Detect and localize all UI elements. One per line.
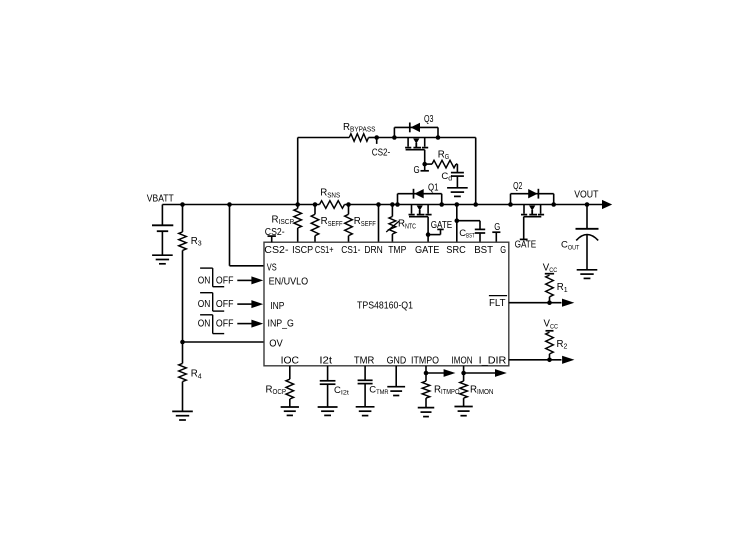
ground CI2t bbox=[318, 407, 338, 415]
wire SRC pin bbox=[456, 205, 458, 243]
svg-text:TPS48160-Q1: TPS48160-Q1 bbox=[357, 300, 413, 311]
svg-text:GATE: GATE bbox=[431, 220, 453, 231]
node FLT arrow bbox=[562, 299, 574, 307]
thermistor RNTC bbox=[386, 217, 416, 235]
svg-text:GND: GND bbox=[387, 355, 407, 366]
svg-text:VOUT: VOUT bbox=[574, 189, 598, 200]
svg-text:ON: ON bbox=[198, 319, 211, 330]
op-amp U1 TPS48160-Q1 body bbox=[264, 242, 509, 366]
power VCC for R1 bbox=[543, 262, 558, 274]
ground CD bbox=[447, 188, 468, 197]
resistor R2 bbox=[546, 332, 568, 354]
ground CTMR bbox=[356, 407, 375, 416]
svg-text:IMON: IMON bbox=[452, 355, 473, 366]
resistor R1 bbox=[546, 275, 568, 297]
resistor RISCP bbox=[272, 209, 302, 229]
wire R2 bottom lead bbox=[549, 354, 551, 360]
svg-text:TMP: TMP bbox=[388, 245, 406, 256]
transistor Q1 bbox=[409, 183, 439, 217]
svg-text:CS2-: CS2- bbox=[264, 245, 288, 256]
wire CI2t to ground bbox=[327, 384, 329, 407]
wire RIMON to ground bbox=[463, 398, 465, 406]
wire IMON pin bbox=[463, 366, 465, 373]
ground battery bbox=[152, 255, 173, 264]
node Q3 source junction bbox=[392, 135, 397, 140]
switch S1 ON/OFF for EN/UVLO bbox=[198, 268, 234, 287]
ground RIMON bbox=[454, 407, 472, 416]
svg-text:G: G bbox=[494, 222, 500, 233]
wire R3 to OV node bbox=[182, 250, 184, 342]
svg-text:Q2: Q2 bbox=[513, 181, 523, 192]
wire arrow into EN/UVLO pin bbox=[237, 276, 263, 284]
node bypass-main rail junction bbox=[473, 202, 478, 207]
svg-text:GATE: GATE bbox=[415, 245, 440, 256]
wire RITMPO top lead bbox=[425, 373, 427, 381]
node Q1 gate junction bbox=[426, 232, 431, 237]
wire RSEFF2 top bbox=[348, 205, 350, 215]
svg-text:CS1+: CS1+ bbox=[315, 245, 334, 256]
node I_DIR-R2 junction bbox=[547, 358, 552, 363]
node I_DIR arrow bbox=[562, 356, 574, 364]
svg-text:SRC: SRC bbox=[446, 245, 466, 256]
wire bypass riser bbox=[298, 138, 350, 205]
svg-text:G: G bbox=[414, 165, 420, 176]
node G terminal at IC bbox=[492, 222, 500, 242]
resistor RITMPO bbox=[422, 381, 460, 398]
switch S3 ON/OFF for INP_G bbox=[198, 315, 234, 334]
node CS2- pin terminal bbox=[265, 227, 285, 242]
battery V1 bbox=[152, 205, 173, 256]
node GATE terminal at Q1 bbox=[428, 220, 452, 235]
node CS2- net stub bbox=[372, 135, 391, 158]
node rail-SRC junction bbox=[455, 202, 460, 207]
svg-text:CS2-: CS2- bbox=[265, 227, 285, 238]
svg-text:G: G bbox=[500, 245, 506, 256]
resistor RIMON bbox=[460, 381, 494, 398]
wire RNTC to TMP pin bbox=[391, 234, 393, 242]
wire Q1 gate to GATE pin bbox=[427, 217, 429, 243]
resistor R3 bbox=[179, 232, 202, 251]
wire IOC pin bbox=[289, 366, 291, 379]
wire RITMPO to ground bbox=[425, 398, 427, 408]
node GATE terminal at Q2 bbox=[515, 217, 537, 251]
node Q3 gate junction bbox=[422, 162, 427, 167]
svg-text:OFF: OFF bbox=[216, 319, 234, 330]
wire I2t pin bbox=[327, 366, 329, 381]
wire CBST to BST pin bbox=[479, 233, 481, 242]
wire IMON arrow bbox=[464, 369, 507, 377]
svg-text:FLT: FLT bbox=[489, 298, 506, 309]
wire RSEFF1 top bbox=[314, 205, 316, 215]
wire COUT bottom lead bbox=[586, 235, 588, 270]
resistor R4 bbox=[179, 363, 202, 381]
svg-text:CS2-: CS2- bbox=[372, 147, 391, 158]
wire ITMPO arrow bbox=[426, 369, 455, 377]
node G terminal at Q3 bbox=[414, 164, 429, 176]
svg-text:BST: BST bbox=[474, 245, 493, 256]
capacitor COUT bbox=[561, 229, 599, 252]
svg-text:INP_G: INP_G bbox=[268, 319, 295, 330]
svg-text:IOC: IOC bbox=[281, 355, 299, 366]
wire main input rail bbox=[162, 204, 603, 206]
svg-text:VS: VS bbox=[267, 262, 277, 273]
resistor ROCP bbox=[266, 379, 294, 399]
wire RISCP bbox=[297, 205, 299, 209]
wire GND pin bbox=[395, 366, 397, 387]
wire DRN pin bbox=[378, 205, 380, 243]
wire Q3 gate to RG bbox=[425, 163, 432, 165]
wire R4 top lead bbox=[182, 342, 184, 363]
transistor Q1 body diode bbox=[398, 189, 442, 205]
switch S2 ON/OFF for INP bbox=[198, 293, 234, 311]
wire CTMR to ground bbox=[364, 384, 366, 407]
pin labels left column bbox=[267, 262, 309, 349]
svg-text:I2t: I2t bbox=[319, 355, 332, 366]
node rail-CS1- junction bbox=[346, 202, 351, 207]
node Q1 diode junction bbox=[395, 202, 400, 207]
capacitor CD bbox=[441, 171, 464, 183]
node FLT-R1 junction bbox=[547, 300, 552, 305]
wire ROCP to ground bbox=[289, 399, 291, 407]
svg-text:OFF: OFF bbox=[216, 299, 234, 310]
svg-text:EN/UVLO: EN/UVLO bbox=[269, 276, 309, 287]
ground ROCP bbox=[281, 407, 299, 415]
resistor RSEFF1 bbox=[311, 214, 342, 235]
node IMON junction bbox=[461, 371, 466, 376]
node rail-R3 junction bbox=[180, 202, 185, 207]
transistor Q2 bbox=[513, 181, 544, 217]
wire CBST branch bbox=[457, 221, 480, 230]
resistor RSEFF2 bbox=[345, 214, 376, 235]
svg-text:VBATT: VBATT bbox=[147, 194, 174, 205]
wire R3 top lead bbox=[182, 205, 184, 232]
wire TMR pin bbox=[364, 366, 366, 381]
node Q1 drain junction bbox=[439, 202, 444, 207]
node SRC-CBST junction bbox=[455, 218, 460, 223]
node ITMPO junction bbox=[424, 371, 429, 376]
ground RITMPO bbox=[418, 408, 435, 417]
node rail-DRN junction bbox=[376, 202, 381, 207]
wire RNTC top bbox=[391, 205, 393, 217]
svg-text:ON: ON bbox=[198, 275, 211, 286]
svg-text:DRN: DRN bbox=[364, 245, 382, 256]
wire Q3 drain to main rail corner bbox=[438, 138, 476, 205]
node Q2 drain junction bbox=[508, 202, 513, 207]
pin labels top row bbox=[264, 245, 506, 256]
wire VS pin bbox=[230, 205, 265, 266]
transistor Q3 bbox=[405, 114, 434, 150]
node Q3 drain junction bbox=[436, 135, 441, 140]
svg-text:ITMPO: ITMPO bbox=[411, 355, 439, 366]
svg-text:CS1-: CS1- bbox=[341, 245, 360, 256]
wire CD to ground bbox=[456, 176, 458, 188]
resistor RBYPASS bbox=[343, 122, 376, 142]
node OV divider junction bbox=[180, 340, 185, 345]
pin label FLT bbox=[489, 296, 507, 309]
wire CS2- node to Q3 bbox=[377, 137, 395, 139]
wire RIMON top lead bbox=[463, 373, 465, 381]
wire Q3 gate bbox=[424, 150, 426, 164]
transistor Q3 body diode bbox=[394, 123, 438, 138]
wire R4 bottom lead bbox=[182, 382, 184, 412]
svg-text:ISCP: ISCP bbox=[292, 245, 313, 256]
ground GND pin bbox=[387, 387, 405, 396]
ground R4 bbox=[172, 411, 193, 420]
pin labels bottom row bbox=[281, 355, 507, 366]
wire I_DIR output bbox=[509, 359, 562, 361]
resistor RG bbox=[432, 149, 456, 168]
svg-text:Q3: Q3 bbox=[424, 114, 434, 125]
wire RISCP to ISCP pin bbox=[297, 228, 299, 242]
svg-text:Q1: Q1 bbox=[428, 183, 439, 194]
node VBATT bbox=[147, 194, 174, 205]
wire Q3 channel rail bbox=[394, 137, 438, 139]
transistor Q2 body diode bbox=[511, 189, 554, 205]
svg-text:TMR: TMR bbox=[354, 355, 375, 366]
wire FLT output bbox=[509, 302, 562, 304]
node rail-CS1+ junction bbox=[313, 202, 318, 207]
node Q2 source junction bbox=[551, 202, 556, 207]
wire COUT top lead bbox=[586, 205, 588, 229]
capacitor CI2t bbox=[320, 381, 349, 397]
wire RSEFF2 to CS1- pin bbox=[348, 236, 350, 243]
node rail-bypass junction bbox=[295, 202, 300, 207]
wire RG to CD bbox=[456, 164, 457, 173]
svg-text:GATE: GATE bbox=[515, 240, 537, 251]
ground COUT bbox=[577, 270, 598, 279]
node rail-VS junction bbox=[227, 202, 232, 207]
svg-text:ON: ON bbox=[198, 299, 211, 310]
svg-text:INP: INP bbox=[270, 301, 284, 312]
capacitor CBST bbox=[459, 228, 485, 240]
svg-text:I_DIR: I_DIR bbox=[479, 355, 507, 366]
wire RBYPASS to CS2- node bbox=[369, 137, 377, 139]
capacitor CTMR bbox=[358, 380, 389, 396]
svg-text:OV: OV bbox=[269, 339, 283, 350]
node VOUT junction bbox=[585, 202, 590, 207]
wire ITMPO pin bbox=[425, 366, 427, 373]
wire arrow into INP_G pin bbox=[237, 320, 263, 328]
svg-text:OFF: OFF bbox=[216, 275, 234, 286]
wire R1 bottom lead bbox=[549, 297, 551, 303]
node VOUT arrow bbox=[574, 189, 612, 209]
power VCC for R2 bbox=[544, 319, 559, 331]
node rail-TMP junction bbox=[390, 202, 395, 207]
wire OV pin bbox=[183, 341, 265, 343]
wire RSEFF1 to CS1+ pin bbox=[314, 236, 316, 243]
wire arrow into INP pin bbox=[237, 300, 263, 308]
resistor RSNS bbox=[320, 188, 345, 209]
